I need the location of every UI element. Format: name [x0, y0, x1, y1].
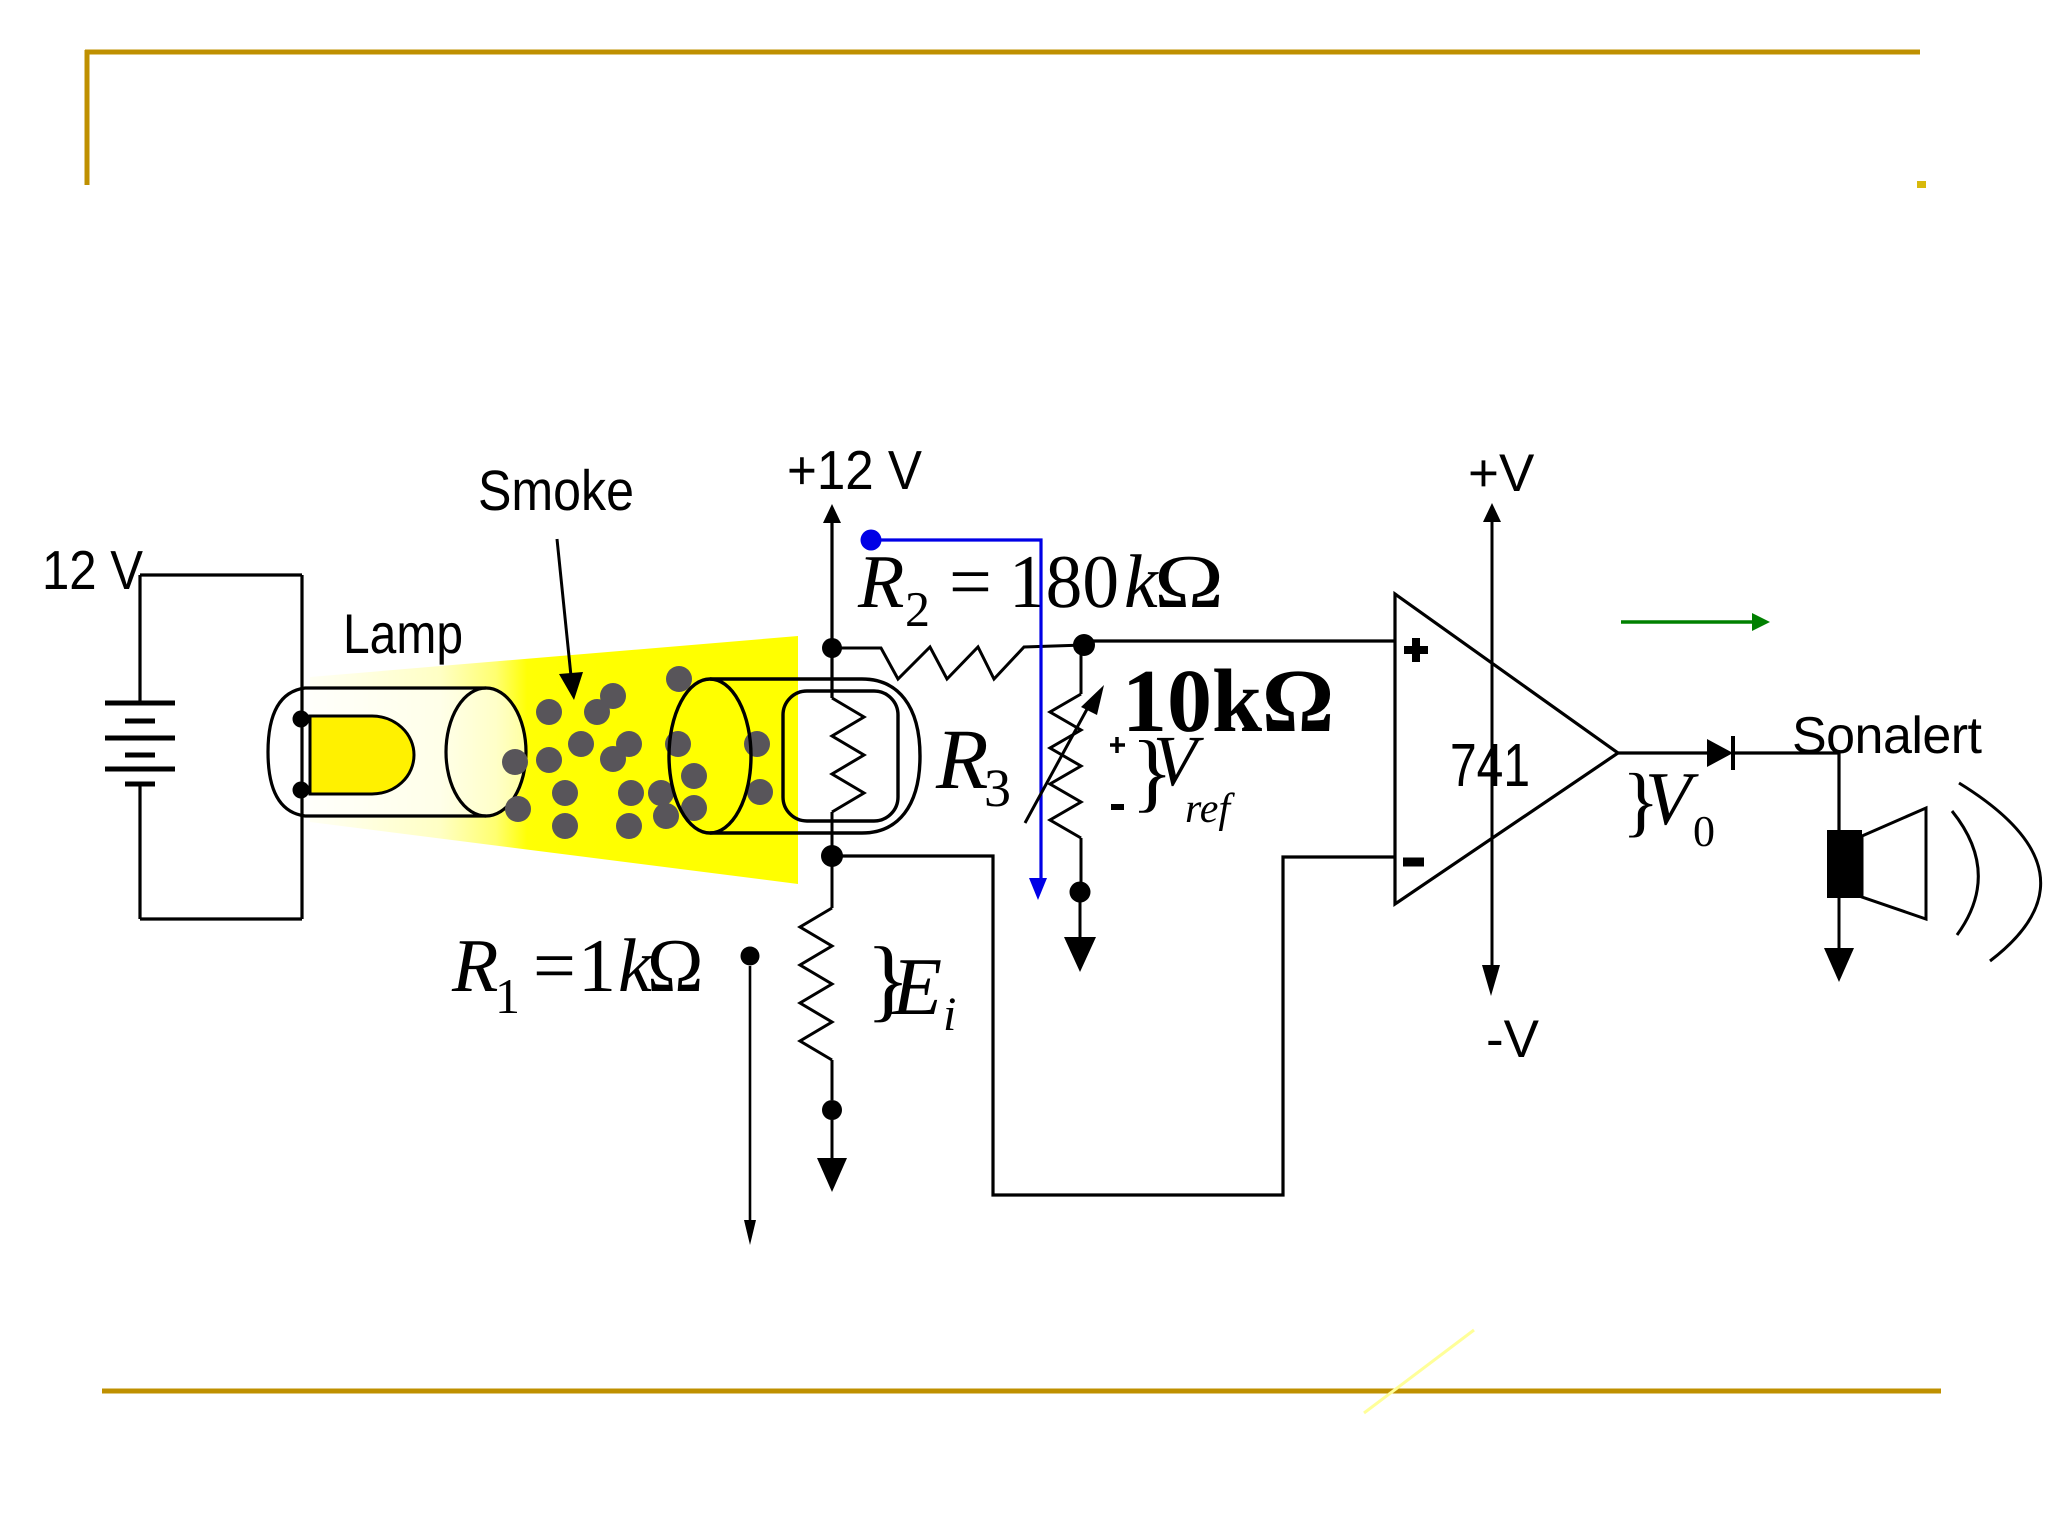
node C (R3 bottom)	[821, 845, 843, 867]
label Smoke	[478, 459, 634, 523]
wire battery loop	[140, 575, 302, 919]
label 10kOhm	[1122, 652, 1334, 751]
svg-text:180: 180	[1009, 540, 1119, 624]
smoke pointer arrow	[557, 539, 583, 700]
svg-text:E: E	[891, 941, 942, 1032]
label R1 = 1kOhm	[451, 924, 703, 1024]
svg-text:1: 1	[578, 924, 616, 1008]
lamp bulb	[310, 716, 414, 794]
svg-text:3: 3	[984, 758, 1011, 818]
node B (R2 right)	[1073, 634, 1095, 656]
resistor R1	[800, 908, 832, 1100]
svg-text:=: =	[949, 540, 992, 624]
svg-text:Sonalert: Sonalert	[1792, 707, 1983, 765]
svg-text:R: R	[935, 711, 989, 807]
wire to noninverting input	[1084, 639, 1395, 642]
label Sonalert	[1792, 707, 1983, 765]
wire R3 node to R1	[831, 812, 834, 908]
photocell tube	[669, 679, 920, 833]
label 12 V	[42, 539, 143, 601]
svg-text:12 V: 12 V	[42, 539, 143, 601]
svg-text:V: V	[1645, 757, 1699, 841]
op-amp power rail	[1482, 503, 1501, 996]
label R2 = 180 kOhm	[857, 540, 1224, 637]
svg-text:i: i	[943, 988, 956, 1041]
wire to inverting input	[832, 856, 1395, 1195]
light beam	[310, 636, 798, 884]
resistor R2	[832, 645, 1084, 679]
label Lamp	[343, 602, 463, 665]
node A (R2 left)	[822, 638, 842, 658]
smoke particles	[502, 666, 773, 839]
potentiometer 10k	[1025, 645, 1104, 882]
svg-text:-V: -V	[1486, 1010, 1540, 1069]
svg-text:2: 2	[905, 581, 930, 637]
svg-text:1: 1	[495, 968, 520, 1024]
pot ground node and arrow	[1064, 882, 1096, 973]
lamp terminal nodes	[293, 711, 310, 799]
svg-text:Ω: Ω	[1154, 540, 1224, 624]
svg-text:Ω: Ω	[647, 924, 703, 1008]
battery B1	[105, 703, 175, 784]
svg-text:R: R	[857, 540, 904, 624]
label R3	[935, 711, 1011, 818]
+12 V supply arrow	[787, 439, 922, 698]
lamp glass	[268, 688, 526, 816]
label -V	[1486, 1010, 1540, 1069]
svg-text:+V: +V	[1468, 444, 1535, 503]
svg-text:R: R	[451, 924, 498, 1008]
photoresistor R3	[832, 698, 864, 812]
diode D1	[1707, 736, 1733, 770]
svg-text:=: =	[533, 924, 576, 1008]
label Vref with brace	[1110, 721, 1235, 832]
svg-text:+12 V: +12 V	[787, 439, 922, 501]
output wire	[1618, 751, 1839, 754]
svg-text:0: 0	[1693, 807, 1715, 856]
green arrow	[1621, 613, 1770, 631]
Sonalert speaker	[1824, 753, 2041, 982]
svg-text:ref: ref	[1185, 786, 1235, 832]
Ei measurement arrow	[741, 947, 760, 1246]
op-amp U1 741	[1395, 594, 1618, 904]
label +V	[1468, 444, 1535, 503]
label V0 with brace	[1622, 757, 1715, 856]
svg-text:741: 741	[1450, 731, 1530, 799]
svg-text:Smoke: Smoke	[478, 459, 634, 523]
label Ei with brace	[866, 928, 956, 1041]
blue wiper wire	[861, 530, 1048, 901]
node below R1 and ground arrow	[817, 1100, 847, 1192]
svg-text:Lamp: Lamp	[343, 602, 463, 665]
